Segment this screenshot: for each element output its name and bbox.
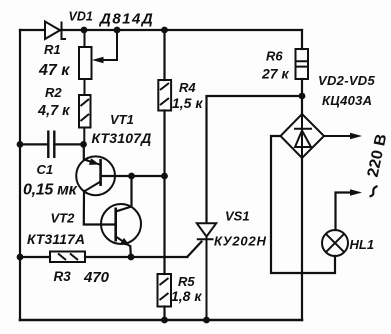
svg-text:R5: R5 <box>178 274 195 289</box>
svg-text:R4: R4 <box>179 80 196 95</box>
svg-text:КТ3117А: КТ3117А <box>27 232 85 247</box>
node VT2 emitter / R3 / gate <box>128 254 135 261</box>
node B <box>114 27 121 34</box>
svg-text:47 к: 47 к <box>38 62 70 79</box>
wire VT1 base row <box>101 175 165 177</box>
wire mains terminal 2 riser <box>336 193 351 231</box>
svg-text:VS1: VS1 <box>225 209 250 224</box>
node D (C1/R2/VT1e) <box>80 141 87 148</box>
svg-text:КТ3107Д: КТ3107Д <box>92 130 152 146</box>
zener diode VD1 <box>45 22 66 40</box>
node E (VT1 base / VT2 collector) <box>128 173 135 180</box>
node F (R4/R5 junction) <box>161 173 168 180</box>
svg-text:0,15 мк: 0,15 мк <box>23 182 78 199</box>
svg-text:R6: R6 <box>266 49 283 64</box>
wire R3 gate row <box>20 256 187 258</box>
svg-text:470: 470 <box>83 269 110 286</box>
transistor VT1 <box>76 156 115 195</box>
resistor R2 <box>79 95 91 144</box>
svg-text:КЦ403А: КЦ403А <box>322 93 372 108</box>
VT2 emitter arrow (NPN) <box>120 238 130 246</box>
svg-text:4,7 к: 4,7 к <box>37 103 70 119</box>
lamp HL1 <box>322 230 348 256</box>
wire VT2 collector drop <box>116 176 132 212</box>
node on left bus (C1) <box>17 141 24 148</box>
svg-text:КУ202Н: КУ202Н <box>214 234 267 249</box>
svg-text:Д814Д: Д814Д <box>98 11 154 28</box>
svg-text:27 к: 27 к <box>261 66 289 82</box>
resistor R3 <box>50 252 85 263</box>
resistor R4 <box>158 80 171 111</box>
VT1 emitter arrow (PNP) <box>89 158 100 165</box>
svg-text:VD2-VD5: VD2-VD5 <box>318 73 375 88</box>
wiper arrowhead R1 <box>92 57 104 63</box>
wire VT2 emitter tail <box>129 246 132 257</box>
mains arrow 1 <box>324 135 351 137</box>
wire left bus <box>19 30 21 320</box>
svg-text:VT1: VT1 <box>110 112 134 127</box>
resistor R5 <box>158 274 172 307</box>
node on left bus (R3 row) <box>17 254 24 261</box>
resistor R6 <box>296 49 309 79</box>
tilde AC mark <box>370 186 378 197</box>
node C <box>161 27 168 34</box>
wire thyristor gate diagonal <box>187 242 201 257</box>
node R6 / bridge plus <box>299 93 306 100</box>
thyristor VS1 <box>197 223 216 320</box>
bridge rectifier VD2-VD5 <box>281 114 325 158</box>
svg-text:C1: C1 <box>37 162 54 177</box>
transistor VT2 <box>101 204 141 246</box>
wire top bus <box>20 29 302 31</box>
svg-text:1,5 к: 1,5 к <box>172 95 203 111</box>
svg-text:VD1: VD1 <box>69 10 93 24</box>
capacitor C1 <box>48 131 54 159</box>
wire right column (R6 / bridge column) <box>301 30 303 320</box>
wire R4 column <box>163 30 165 320</box>
wire VT1 emitter drop <box>83 144 85 159</box>
wire bridge-plus to thyristor anode <box>207 96 303 223</box>
potentiometer R1 <box>79 30 117 95</box>
svg-text:VT2: VT2 <box>51 211 76 226</box>
wire bottom bus <box>20 319 302 322</box>
svg-text:220 В: 220 В <box>363 134 390 178</box>
wire C1 row <box>20 143 84 145</box>
svg-text:R3: R3 <box>54 269 72 284</box>
node R5 bottom <box>161 317 168 324</box>
mains arrow 2 <box>350 189 362 195</box>
node VS1 cathode bottom <box>203 317 210 324</box>
wire lamp AC loop <box>271 136 335 273</box>
node A <box>81 27 88 34</box>
svg-text:R1: R1 <box>44 42 61 57</box>
wire VT1 collector to VT2 base <box>84 191 116 225</box>
svg-text:R2: R2 <box>45 85 62 100</box>
svg-text:1,8 к: 1,8 к <box>171 288 202 304</box>
svg-text:HL1: HL1 <box>350 237 375 252</box>
